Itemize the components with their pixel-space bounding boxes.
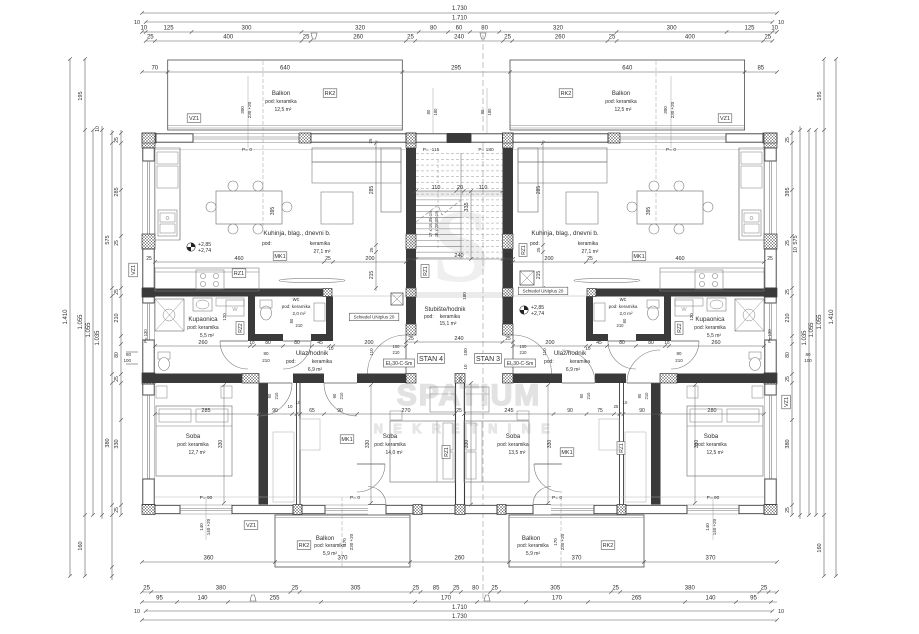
svg-text:85: 85: [757, 66, 764, 72]
svg-text:210: 210: [520, 350, 528, 355]
svg-text:460: 460: [675, 256, 684, 262]
svg-text:25: 25: [407, 35, 414, 41]
bedroom wall A right: [651, 383, 661, 505]
svg-text:260: 260: [711, 340, 720, 346]
svg-text:400: 400: [685, 35, 696, 41]
svg-text:wc: wc: [292, 297, 300, 303]
svg-text:5,5 m²: 5,5 m²: [707, 333, 722, 339]
svg-text:240: 240: [454, 35, 465, 41]
svg-text:25: 25: [114, 289, 120, 295]
svg-text:RZ1: RZ1: [234, 271, 244, 277]
dim row bottom segments 2: [142, 601, 777, 603]
dim row 1.710 top: [146, 21, 773, 23]
svg-text:395: 395: [646, 207, 652, 216]
svg-text:pod: keramika: pod: keramika: [265, 99, 297, 105]
fire door label right: [505, 359, 536, 367]
svg-text:320: 320: [355, 26, 366, 32]
svg-text:210: 210: [617, 323, 625, 328]
section marker P bottom: [484, 595, 490, 601]
stair hall bottom dims: [406, 341, 513, 343]
VZ1 label top-left: [187, 114, 201, 123]
washbasin left: [193, 298, 212, 311]
svg-text:RK2: RK2: [603, 543, 614, 549]
stair break line: [416, 200, 461, 222]
svg-text:25: 25: [147, 35, 154, 41]
svg-text:90: 90: [272, 408, 278, 414]
WC fixtures left: [261, 306, 272, 320]
svg-text:300: 300: [667, 26, 678, 32]
svg-text:210: 210: [644, 392, 649, 400]
svg-text:VZ1: VZ1: [131, 265, 137, 275]
closet partition right: [619, 383, 621, 505]
svg-text:90: 90: [637, 393, 642, 398]
toilet right: [749, 352, 761, 359]
svg-text:25: 25: [614, 404, 619, 409]
svg-text:330: 330: [365, 440, 371, 449]
svg-text:NEKRETNINE: NEKRETNINE: [374, 422, 560, 436]
svg-text:125: 125: [744, 26, 755, 32]
kitchen dim row right: [513, 261, 764, 263]
bed Soba4: [687, 406, 763, 476]
WC walls right: [664, 297, 671, 342]
svg-text:25: 25: [292, 586, 299, 592]
Soba3 height dim: [547, 385, 549, 503]
svg-text:370: 370: [705, 556, 716, 562]
svg-text:keramika: keramika: [312, 359, 333, 365]
svg-text:170: 170: [553, 538, 558, 546]
watermark logo square: [412, 194, 510, 295]
svg-text:P= 90: P= 90: [200, 495, 213, 501]
svg-text:210: 210: [296, 323, 304, 328]
svg-text:pod:: pod:: [424, 314, 434, 320]
svg-text:RZ1: RZ1: [423, 266, 429, 276]
svg-text:230 +20: 230 +20: [349, 533, 354, 550]
svg-text:25: 25: [505, 336, 511, 342]
svg-text:10: 10: [778, 609, 784, 615]
svg-text:25: 25: [458, 376, 463, 382]
stair treads: [416, 153, 503, 155]
WC fixtures right: [648, 306, 659, 320]
level marker left: [187, 243, 195, 251]
svg-text:300: 300: [240, 106, 245, 114]
svg-text:10: 10: [771, 26, 778, 32]
stair window dim left: [432, 88, 434, 133]
svg-text:180: 180: [487, 108, 492, 116]
svg-text:230 +20: 230 +20: [560, 533, 565, 550]
svg-text:Soba: Soba: [186, 433, 201, 440]
svg-text:25: 25: [143, 586, 150, 592]
svg-text:1.055: 1.055: [809, 322, 815, 338]
closet door arc left: [324, 383, 357, 416]
svg-text:Soba: Soba: [506, 433, 521, 440]
left VZ1 label: [129, 263, 138, 277]
svg-text:180: 180: [462, 292, 467, 300]
balcony top-left window dim: [247, 76, 249, 148]
kitchen bar table right: [574, 278, 640, 282]
svg-text:240: 240: [454, 253, 463, 259]
balcony bottom-left outline: [275, 515, 410, 567]
bedroom dim row left: [155, 413, 455, 415]
svg-text:120: 120: [689, 313, 694, 321]
closet left b: [300, 419, 320, 450]
svg-text:210: 210: [339, 392, 344, 400]
svg-text:80: 80: [805, 352, 811, 357]
svg-text:5,9 m²: 5,9 m²: [323, 551, 338, 557]
svg-text:90: 90: [267, 393, 272, 398]
top wall: [142, 133, 156, 143]
svg-text:Schiedel UNIplus 20: Schiedel UNIplus 20: [523, 289, 564, 294]
svg-text:170: 170: [552, 596, 563, 602]
sofa right: [518, 148, 607, 162]
coffee table right: [566, 192, 598, 224]
svg-text:140: 140: [197, 596, 208, 602]
svg-text:75: 75: [597, 408, 603, 414]
svg-text:10: 10: [585, 346, 591, 351]
svg-text:260: 260: [198, 340, 207, 346]
svg-text:1.410: 1.410: [829, 309, 835, 325]
svg-text:EIₒ30-C-Sm: EIₒ30-C-Sm: [507, 361, 534, 367]
closet left a: [273, 432, 294, 502]
svg-text:25: 25: [764, 35, 771, 41]
svg-text:17 x 16,35 cm: 17 x 16,35 cm: [428, 210, 433, 237]
svg-text:MK1: MK1: [561, 450, 572, 456]
svg-text:P= 0: P= 0: [350, 495, 360, 501]
svg-text:25: 25: [785, 376, 791, 382]
balcony bottom-left centerline: [341, 497, 343, 567]
svg-text:160: 160: [78, 541, 84, 550]
bath door arc left: [220, 341, 248, 369]
svg-text:25: 25: [453, 586, 460, 592]
svg-text:100: 100: [520, 344, 528, 349]
svg-text:pod:: pod:: [530, 241, 540, 247]
svg-text:keramika: keramika: [310, 241, 331, 247]
svg-text:210: 210: [393, 350, 401, 355]
svg-text:pod: keramika: pod: keramika: [374, 442, 406, 448]
bed Soba2: [390, 421, 455, 482]
bath door arc right: [671, 341, 699, 369]
svg-text:pod:: pod:: [262, 241, 272, 247]
MK1 label left: [273, 252, 287, 260]
svg-text:90: 90: [567, 408, 573, 414]
svg-text:395: 395: [785, 187, 791, 196]
dim row bottom segments: [142, 591, 777, 593]
svg-text:25: 25: [612, 586, 619, 592]
svg-text:pod: keramika: pod: keramika: [497, 442, 529, 448]
svg-text:330: 330: [547, 440, 553, 449]
svg-text:20: 20: [457, 185, 463, 191]
coffee table left: [321, 192, 353, 224]
stair dims 110 20 110: [416, 190, 503, 192]
svg-text:12,5 m²: 12,5 m²: [707, 450, 724, 456]
dim row balcony widths bottom: [142, 561, 777, 563]
svg-text:pod: keramika: pod: keramika: [177, 442, 209, 448]
svg-text:80: 80: [426, 109, 431, 114]
svg-text:1.410: 1.410: [63, 309, 69, 325]
svg-text:260: 260: [454, 556, 465, 562]
RZ1 label Soba3: [617, 442, 625, 455]
WC bottom wall right: [586, 334, 608, 341]
svg-text:5,9 m²: 5,9 m²: [526, 551, 541, 557]
svg-text:80: 80: [648, 340, 654, 346]
washer right: [675, 300, 693, 316]
dim row balcony widths: [142, 71, 777, 73]
svg-text:Balkon: Balkon: [522, 536, 540, 542]
bed Soba1: [156, 406, 232, 476]
svg-text:1.055: 1.055: [78, 314, 84, 330]
svg-text:80: 80: [481, 26, 488, 32]
bottom wall: [142, 505, 155, 515]
svg-text:10: 10: [249, 340, 255, 345]
closet right b: [599, 419, 619, 450]
shower left: [155, 299, 184, 331]
svg-text:10: 10: [134, 20, 140, 26]
svg-text:330: 330: [694, 440, 700, 449]
svg-text:360: 360: [203, 556, 214, 562]
svg-text:255: 255: [269, 596, 280, 602]
svg-text:RK2: RK2: [299, 543, 310, 549]
svg-text:Balkon: Balkon: [612, 91, 630, 97]
RK2 label top-right: [559, 89, 573, 98]
svg-text:125: 125: [164, 26, 175, 32]
svg-text:pod: keramika: pod: keramika: [314, 543, 346, 549]
washer left: [226, 300, 244, 316]
svg-text:80: 80: [289, 318, 294, 323]
svg-text:+2,74: +2,74: [198, 248, 211, 254]
VZ1 label top-right: [718, 114, 732, 123]
svg-text:330: 330: [114, 439, 120, 448]
svg-text:25: 25: [767, 256, 773, 262]
svg-text:10: 10: [778, 20, 784, 26]
dining table right: [637, 191, 703, 224]
svg-text:25: 25: [413, 586, 420, 592]
svg-text:25: 25: [303, 35, 310, 41]
svg-text:100: 100: [123, 358, 131, 363]
svg-text:200: 200: [364, 340, 373, 346]
balcony top-right window dim: [670, 76, 672, 148]
svg-text:1.055: 1.055: [86, 322, 92, 338]
kitchen lower counter right: [660, 268, 764, 291]
svg-text:90: 90: [639, 408, 645, 414]
sofa left: [312, 148, 401, 162]
svg-text:15,1 m²: 15,1 m²: [440, 321, 457, 327]
svg-text:25: 25: [761, 586, 768, 592]
svg-text:1.035: 1.035: [95, 330, 101, 346]
entry door right arc: [513, 335, 552, 374]
svg-text:100: 100: [463, 348, 468, 356]
svg-text:10: 10: [623, 400, 628, 405]
dining table left: [216, 191, 282, 224]
svg-text:210: 210: [586, 392, 591, 400]
bedroom dim row right: [464, 413, 764, 415]
svg-text:13,5 m²: 13,5 m²: [509, 450, 526, 456]
svg-text:RK2: RK2: [325, 91, 336, 97]
hall dim row right: [513, 345, 764, 347]
svg-text:200: 200: [544, 256, 553, 262]
svg-text:210: 210: [114, 313, 120, 322]
svg-text:90: 90: [332, 393, 337, 398]
hall dim row left: [155, 345, 406, 347]
svg-text:295: 295: [451, 66, 462, 72]
svg-text:VZ1: VZ1: [189, 116, 199, 122]
svg-text:260: 260: [353, 35, 364, 41]
party wall: [455, 383, 457, 505]
svg-text:10: 10: [134, 609, 140, 615]
svg-text:380: 380: [216, 586, 227, 592]
kitchen bar table left: [279, 278, 345, 282]
svg-text:RZ1: RZ1: [444, 447, 450, 457]
balcony door arc Soba2: [368, 487, 386, 505]
svg-text:285: 285: [536, 186, 542, 195]
svg-text:140 +20: 140 +20: [712, 518, 717, 535]
svg-text:380: 380: [685, 586, 696, 592]
right dim column lines: [799, 126, 801, 519]
svg-text:80: 80: [126, 352, 132, 357]
Soba1 door arc: [259, 383, 292, 416]
svg-text:25: 25: [785, 240, 791, 246]
svg-text:STAN 4: STAN 4: [419, 356, 443, 363]
svg-text:10: 10: [140, 26, 147, 32]
svg-text:640: 640: [622, 66, 633, 72]
svg-text:25: 25: [114, 137, 120, 143]
svg-text:VZ1: VZ1: [246, 523, 256, 529]
svg-text:10: 10: [296, 400, 301, 405]
svg-text:pod: keramika: pod: keramika: [694, 325, 726, 331]
interior dim column left living: [375, 140, 377, 291]
stair dim 240: [406, 258, 513, 260]
svg-text:80: 80: [294, 340, 300, 346]
svg-text:MK1: MK1: [274, 254, 285, 260]
WC door arc left: [283, 341, 311, 369]
stair left wall: [406, 133, 416, 148]
svg-text:27,1 m²: 27,1 m²: [582, 249, 599, 255]
svg-text:pod: keramika: pod: keramika: [605, 99, 637, 105]
svg-text:200: 200: [545, 340, 554, 346]
svg-text:65: 65: [309, 408, 315, 414]
svg-text:25: 25: [505, 253, 511, 259]
WC door arc right: [608, 341, 636, 369]
svg-text:140: 140: [705, 523, 710, 531]
svg-text:80: 80: [265, 340, 271, 346]
svg-text:370: 370: [337, 556, 348, 562]
left wall: [142, 133, 155, 148]
RK2 label top-left: [323, 89, 337, 98]
svg-text:keramika: keramika: [440, 314, 461, 320]
Soba2 height dim: [370, 385, 372, 503]
vertical dim 330 center: [470, 383, 472, 505]
svg-text:pod: keramika: pod: keramika: [282, 304, 311, 309]
Soba1 height dim: [223, 385, 225, 503]
Soba2 lower door arc: [357, 464, 385, 492]
svg-text:2,0 m²: 2,0 m²: [619, 311, 632, 316]
svg-text:285: 285: [201, 408, 210, 414]
svg-text:95: 95: [750, 596, 757, 602]
svg-text:180: 180: [433, 108, 438, 116]
RZ1 label stair: [421, 265, 429, 278]
cooktop left: [196, 270, 224, 289]
bed Soba3: [464, 421, 529, 482]
inner face line bottom: [155, 496, 455, 498]
svg-text:Ulaz/hodnik: Ulaz/hodnik: [296, 350, 329, 357]
balcony top-right centerline: [655, 61, 657, 226]
svg-text:1.730: 1.730: [452, 6, 468, 12]
svg-text:RZ1: RZ1: [619, 443, 625, 453]
svg-text:140 +20: 140 +20: [206, 518, 211, 535]
RZ1 label kitchen left: [232, 269, 246, 278]
svg-text:Kuhinja, blag., dnevni b.: Kuhinja, blag., dnevni b.: [531, 230, 598, 237]
svg-text:12,5 m²: 12,5 m²: [275, 107, 292, 113]
svg-text:330: 330: [464, 440, 470, 449]
svg-text:305: 305: [550, 586, 561, 592]
svg-text:pod: keramika: pod: keramika: [187, 325, 219, 331]
svg-text:60: 60: [456, 26, 463, 32]
svg-text:27,1 m²: 27,1 m²: [314, 249, 331, 255]
cabinet left bath: [216, 298, 244, 306]
dim row top segments: [142, 31, 777, 33]
svg-text:pod:: pod:: [286, 359, 296, 365]
MK1 label bedroom right: [560, 448, 574, 457]
cabinet right bath: [675, 298, 703, 306]
RZ2 label right: [675, 322, 683, 335]
svg-text:10: 10: [95, 126, 101, 132]
svg-text:170: 170: [441, 596, 452, 602]
svg-text:640: 640: [280, 66, 291, 72]
nightstands Soba1: [156, 386, 167, 398]
nightstands Soba4: [687, 386, 698, 398]
svg-text:210: 210: [675, 358, 683, 363]
svg-text:25: 25: [325, 256, 331, 262]
svg-text:270: 270: [401, 408, 410, 414]
balcony door arc Soba3: [533, 487, 551, 505]
Schiedel label right: [518, 287, 568, 295]
wardrobe Soba2: [430, 387, 455, 412]
section marker P top: [480, 33, 486, 39]
svg-text:5,5 m²: 5,5 m²: [200, 333, 215, 339]
svg-text:335: 335: [464, 202, 470, 211]
chimney left: [391, 293, 403, 305]
svg-text:12,5 m²: 12,5 m²: [615, 107, 632, 113]
svg-text:45: 45: [317, 340, 323, 346]
svg-text:W: W: [681, 307, 687, 313]
svg-text:25: 25: [369, 247, 374, 253]
svg-text:110: 110: [369, 348, 374, 356]
svg-text:80: 80: [619, 340, 625, 346]
svg-text:RK2: RK2: [561, 91, 572, 97]
svg-text:210: 210: [274, 392, 279, 400]
svg-text:+2,74: +2,74: [531, 311, 544, 317]
svg-text:260: 260: [555, 35, 566, 41]
toilet left: [158, 352, 170, 359]
STAN 4 label: [418, 354, 445, 364]
MK1 label right: [632, 252, 646, 260]
svg-text:25: 25: [785, 137, 791, 143]
svg-text:MK1: MK1: [633, 254, 644, 260]
svg-text:VZ1: VZ1: [784, 397, 790, 407]
svg-text:160: 160: [817, 543, 823, 552]
svg-text:25: 25: [536, 247, 541, 253]
svg-text:305: 305: [350, 586, 361, 592]
svg-text:330: 330: [218, 440, 224, 449]
svg-text:95: 95: [156, 596, 163, 602]
svg-text:P= 0: P= 0: [666, 147, 676, 153]
svg-text:10: 10: [664, 340, 670, 345]
svg-text:210: 210: [262, 358, 270, 363]
svg-text:25: 25: [491, 586, 498, 592]
bedroom wall A left: [259, 383, 269, 505]
svg-text:P= 90: P= 90: [707, 495, 720, 501]
svg-text:25: 25: [504, 35, 511, 41]
svg-text:90: 90: [337, 408, 343, 414]
shower right: [735, 299, 764, 331]
